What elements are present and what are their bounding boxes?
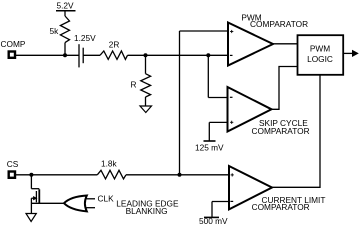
svg-text:CS: CS — [7, 159, 19, 169]
svg-text:COMPARATOR: COMPARATOR — [250, 19, 308, 29]
svg-text:R: R — [131, 80, 137, 90]
svg-text:BLANKING: BLANKING — [126, 206, 168, 216]
svg-text:COMP: COMP — [1, 39, 26, 49]
svg-text:CLK: CLK — [98, 193, 115, 203]
svg-text:125 mV: 125 mV — [195, 143, 224, 153]
svg-text:1.25V: 1.25V — [74, 33, 96, 43]
svg-text:5k: 5k — [50, 26, 60, 36]
svg-text:COMPARATOR: COMPARATOR — [252, 202, 310, 212]
svg-text:2R: 2R — [109, 39, 120, 49]
svg-text:PWM: PWM — [310, 43, 330, 53]
svg-text:5.2V: 5.2V — [57, 1, 75, 11]
svg-text:COMPARATOR: COMPARATOR — [252, 126, 310, 136]
svg-text:500 mV: 500 mV — [199, 216, 228, 226]
svg-text:LOGIC: LOGIC — [307, 54, 333, 64]
svg-text:1.8k: 1.8k — [101, 159, 118, 169]
